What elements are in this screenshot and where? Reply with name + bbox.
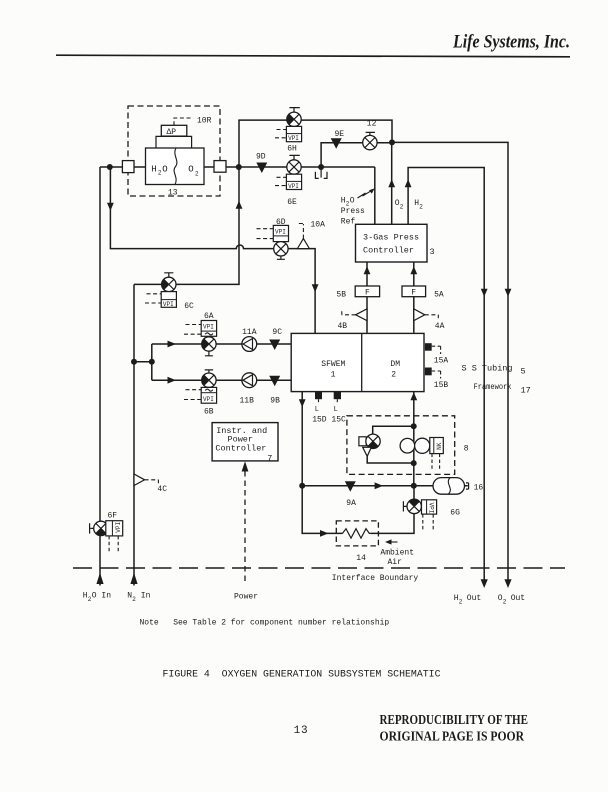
power dashed line [242, 461, 249, 585]
wire water feed branch to 6D [110, 167, 315, 333]
svg-text:Note: Note [140, 619, 159, 628]
svg-text:11B: 11B [240, 397, 255, 406]
valve 6B [184, 370, 217, 417]
header rule [56, 55, 570, 57]
delta-P sensor 10R [161, 116, 211, 137]
svg-text:FIGURE 4 OXYGEN GENERATION SU: FIGURE 4 OXYGEN GENERATION SUBSYSTEM SCH… [163, 670, 441, 681]
figure caption [163, 670, 441, 681]
flow arrow O2 line down [505, 289, 512, 297]
svg-text:2: 2 [400, 203, 404, 210]
svg-text:Ref: Ref [341, 218, 356, 227]
accumulator end stub [466, 483, 469, 489]
tank fitting right [214, 161, 226, 173]
svg-text:H: H [151, 164, 156, 174]
svg-text:NK: NK [436, 442, 443, 450]
svg-text:F: F [411, 289, 416, 298]
O2 label [395, 199, 404, 211]
valve 6H [275, 108, 302, 154]
svg-text:S S Tubing: S S Tubing [462, 363, 513, 373]
tank enclosure dashed box 13 [128, 106, 220, 196]
sensor port 15C [334, 392, 341, 414]
svg-text:15B: 15B [434, 381, 449, 390]
valve 6E [275, 155, 302, 206]
wire main horizontal H2O/O2 line [100, 166, 375, 168]
svg-text:1: 1 [331, 371, 336, 380]
svg-text:O: O [188, 165, 193, 175]
svg-text:5: 5 [521, 367, 526, 377]
svg-text:O: O [162, 164, 167, 174]
svg-text:VPI: VPI [115, 522, 122, 533]
svg-text:9C: 9C [272, 328, 282, 337]
svg-text:Power: Power [234, 592, 258, 601]
accumulator 16 [433, 478, 483, 495]
flow arrow DM sense up [410, 266, 417, 274]
NK sensor box in module 8 [430, 438, 444, 469]
svg-text:6A: 6A [204, 312, 214, 321]
svg-text:7: 7 [267, 453, 272, 463]
interface boundary label [332, 574, 419, 583]
transducer 4C [134, 474, 167, 494]
reproducibility stamp [380, 712, 529, 744]
check valve 9C [269, 328, 282, 350]
H2O In label [83, 591, 111, 603]
svg-text:ΔP: ΔP [167, 128, 177, 137]
water/oxygen tank 13 [146, 148, 205, 197]
heater 14 [336, 521, 378, 563]
junction node 9E tee [318, 164, 324, 170]
svg-text:6F: 6F [108, 512, 118, 521]
svg-text:ORIGINAL PAGE IS POOR: ORIGINAL PAGE IS POOR [380, 728, 525, 743]
svg-text:10A: 10A [311, 221, 326, 230]
svg-text:12: 12 [367, 120, 377, 129]
flow arrow line A [168, 341, 177, 348]
header logo Life Systems, Inc. [452, 32, 570, 53]
H2O press ref label [341, 188, 375, 226]
svg-text:Press: Press [341, 207, 365, 216]
pump 11B [240, 373, 257, 406]
wire 6C branch [134, 167, 239, 284]
svg-text:Air: Air [388, 558, 403, 567]
svg-text:3-Gas Press: 3-Gas Press [363, 233, 419, 243]
note line [140, 619, 390, 628]
H2O In port arrow [96, 573, 103, 584]
valve 12 [363, 120, 377, 150]
junction node SFWEM outlet tee [299, 483, 305, 489]
svg-text:8: 8 [464, 444, 469, 453]
svg-text:REPRODUCIBILITY OF THE: REPRODUCIBILITY OF THE [380, 712, 529, 727]
instrumentation and power controller 7 [212, 423, 278, 464]
delta-P mounting bracket [156, 136, 192, 148]
N2 In label [127, 591, 150, 603]
svg-text:Interface Boundary: Interface Boundary [332, 574, 419, 583]
svg-text:6B: 6B [204, 408, 214, 417]
svg-text:9D: 9D [256, 153, 266, 162]
wire O2 sense line to controller [391, 142, 393, 224]
interface boundary [73, 567, 565, 569]
wire 9A accumulator line [302, 485, 468, 487]
reference vent symbol [315, 167, 327, 178]
svg-text:2: 2 [503, 598, 507, 605]
svg-text:Framework: Framework [474, 382, 512, 392]
wire pump line B [152, 379, 291, 381]
transducer 4A [414, 309, 445, 331]
flow arrow O2 sense up [388, 179, 395, 187]
svg-text:2: 2 [459, 598, 463, 605]
15D 15C labels [312, 415, 346, 424]
svg-text:5A: 5A [434, 290, 444, 299]
flow arrow H2 sense up [405, 179, 412, 187]
svg-text:2: 2 [391, 371, 396, 380]
svg-text:Life Systems, Inc.: Life Systems, Inc. [452, 32, 570, 53]
sensor port 15A [425, 343, 449, 365]
junction node accumulator tee [411, 483, 417, 489]
svg-text:Out: Out [467, 594, 481, 603]
svg-text:2: 2 [195, 170, 199, 177]
junction node at tank right [236, 164, 242, 170]
svg-text:VPI: VPI [203, 396, 214, 403]
flow arrow line B [168, 377, 177, 384]
wire SFWEM pressure sense [366, 262, 368, 333]
wire 6H bypass branch [239, 120, 392, 167]
component module 8 dashed box [347, 416, 469, 475]
svg-text:VPI: VPI [288, 135, 299, 142]
svg-text:4A: 4A [435, 322, 445, 331]
svg-text:DM: DM [390, 360, 400, 369]
junction node module 8 top [411, 423, 417, 429]
svg-text:17: 17 [521, 385, 531, 395]
flow arrow SFWEM sense up [364, 266, 371, 274]
svg-text:15A: 15A [434, 356, 449, 365]
svg-text:9E: 9E [335, 130, 345, 139]
pressure sensor 5B [336, 286, 379, 299]
wire DM pressure sense [413, 262, 415, 333]
svg-text:F: F [365, 289, 370, 298]
relief valve 10A [297, 221, 325, 249]
svg-text:VPI: VPI [427, 503, 434, 514]
junction node O2 manifold [389, 139, 395, 145]
junction node N2 feed tap [131, 359, 137, 365]
flow arrow N2 riser up [236, 201, 243, 209]
flow arrow water feed down [107, 203, 114, 211]
svg-text:13: 13 [168, 188, 178, 197]
wire H2O press ref drop [374, 167, 376, 224]
page number [294, 725, 308, 737]
ambient air label [380, 539, 414, 566]
wire pump feed branch [134, 344, 152, 380]
svg-text:5B: 5B [336, 290, 346, 299]
flow arrow heater line [320, 530, 329, 537]
pressure sensor 5A [402, 286, 444, 299]
check valve 9D [256, 153, 267, 173]
electrolysis module SFWEM 1 / DM 2 [291, 333, 424, 391]
svg-text:11A: 11A [242, 328, 257, 337]
svg-text:2: 2 [132, 596, 136, 603]
svg-text:9A: 9A [346, 499, 356, 508]
junction node at tank left [107, 164, 113, 170]
wire 9E branch [321, 143, 392, 167]
valve 6F [90, 512, 123, 554]
pump 11A [242, 328, 257, 352]
valve 6G [403, 499, 460, 530]
wire fan branch in module 8 [367, 426, 414, 463]
flow arrow SFWEM outlet down [299, 399, 306, 407]
wire N2 In vertical [133, 284, 135, 585]
flow arrow H2 line down [481, 289, 488, 297]
check valve 9B [269, 376, 280, 406]
wire DM bottom loop vertical [413, 392, 415, 486]
junction node pump feed [149, 359, 155, 365]
fan Q in module 8 [359, 434, 380, 456]
sensor port 15D [315, 392, 322, 414]
svg-text:VPI: VPI [288, 183, 299, 190]
svg-text:VPI: VPI [203, 324, 214, 331]
H2 Out label [454, 594, 481, 606]
flow arrow into DM bottom [410, 392, 417, 400]
svg-text:10R: 10R [197, 116, 212, 125]
O2 Out port arrow [504, 579, 511, 588]
svg-text:L: L [334, 406, 338, 414]
wire pump line A [152, 343, 291, 345]
O2 Out label [498, 594, 525, 606]
svg-text:Controller: Controller [215, 443, 266, 453]
check valve 9E [331, 130, 345, 149]
wire O2 outlet line [392, 142, 508, 580]
svg-text:SFWEM: SFWEM [321, 360, 345, 369]
svg-text:See Table 2 for component numb: See Table 2 for component number relatio… [173, 619, 389, 628]
valve 6D [257, 218, 289, 259]
svg-text:2: 2 [419, 203, 423, 210]
valve 6A [184, 312, 217, 356]
svg-text:16: 16 [474, 483, 484, 492]
wire H2O In vertical [99, 167, 101, 586]
svg-text:L: L [315, 406, 319, 414]
wire SFWEM coolant out [302, 392, 414, 534]
H2 label [414, 199, 423, 211]
svg-text:VPI: VPI [163, 301, 174, 308]
svg-text:14: 14 [356, 554, 366, 563]
svg-text:9B: 9B [270, 397, 280, 406]
H2 Out port arrow [481, 579, 488, 588]
sensor port 15B [425, 368, 449, 390]
svg-text:15D 15C: 15D 15C [312, 415, 346, 424]
svg-text:6G: 6G [450, 508, 460, 517]
flow arrow into SFWEM top [312, 284, 319, 292]
pump pair in module 8 [400, 438, 430, 453]
transducer 4B [338, 309, 368, 331]
svg-text:13: 13 [294, 725, 308, 737]
check valve 9A [345, 481, 356, 508]
svg-text:O: O [350, 196, 355, 205]
svg-text:Controller: Controller [363, 245, 414, 255]
svg-text:6H: 6H [287, 145, 297, 154]
flow arrow 9A line [375, 482, 384, 489]
svg-text:O In: O In [92, 591, 111, 600]
svg-text:4B: 4B [338, 322, 348, 331]
3-gas press controller 3 [356, 224, 435, 262]
tank fitting left [122, 161, 134, 173]
wire H2 outlet line [408, 168, 484, 581]
junction node module 8 bottom [411, 460, 417, 466]
svg-text:6D: 6D [276, 218, 286, 227]
svg-text:In: In [141, 591, 151, 600]
svg-text:6C: 6C [184, 302, 194, 311]
svg-text:4C: 4C [157, 485, 167, 494]
N2 In port arrow [130, 573, 137, 584]
S S Tubing 5 label [462, 363, 526, 376]
svg-text:6E: 6E [287, 198, 297, 207]
svg-text:VPI: VPI [275, 228, 286, 235]
Framework 17 label [474, 382, 531, 395]
svg-text:Out: Out [511, 594, 525, 603]
Power label [234, 592, 258, 601]
svg-text:3: 3 [430, 247, 435, 257]
svg-text:Ambient: Ambient [380, 548, 414, 557]
valve 6C [145, 273, 194, 311]
